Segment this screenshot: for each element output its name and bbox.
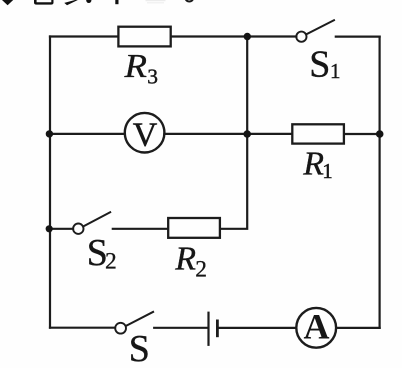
svg-text:R: R [302,146,324,183]
svg-text:2: 2 [105,249,117,275]
svg-text:3: 3 [147,64,158,88]
svg-text:R: R [174,240,196,277]
svg-text:S: S [309,44,330,86]
svg-text:2: 2 [195,256,207,282]
svg-text:R: R [123,48,147,85]
svg-text:1: 1 [322,159,333,183]
svg-text:S: S [129,328,150,368]
svg-text:1: 1 [330,59,341,83]
svg-text:V: V [133,117,158,154]
svg-text:A: A [303,307,329,347]
